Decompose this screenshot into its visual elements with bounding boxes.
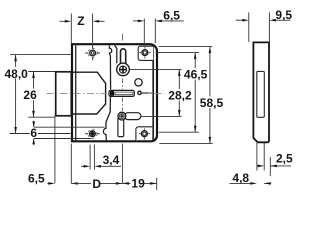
- dimension D: [71, 144, 122, 184]
- cylinder screw head in keyhole: [119, 66, 126, 73]
- key lever (T shape) arm: [125, 113, 141, 120]
- dimension 6 (left bottom): [34, 121, 105, 145]
- dimension 26: [28, 72, 55, 118]
- horizontal center line: [47, 92, 165, 94]
- bolt slot with slider: [109, 90, 134, 96]
- svg-text:Z: Z: [77, 14, 84, 28]
- dimension Z: [60, 14, 105, 48]
- svg-text:48,0: 48,0: [5, 67, 29, 81]
- svg-text:3,4: 3,4: [103, 153, 120, 167]
- keyhole circle: [117, 63, 130, 76]
- dimension 58,5: [159, 47, 213, 144]
- pivot pin: [138, 91, 152, 94]
- internal edge near keyhole: [115, 45, 117, 63]
- bolt seen in side view (inner slot): [257, 71, 265, 117]
- dimension 6,5 (bottom left): [47, 116, 71, 184]
- svg-text:46,5: 46,5: [184, 68, 208, 82]
- dimension 3,4: [81, 145, 121, 170]
- svg-text:4,8: 4,8: [232, 171, 249, 185]
- bolt extension lines below right view: [257, 143, 270, 176]
- bottom-right screw hole: [139, 128, 150, 139]
- svg-text:2,5: 2,5: [276, 151, 293, 165]
- svg-text:28,2: 28,2: [168, 88, 192, 102]
- dimension 4,8: [230, 182, 272, 184]
- bottom-left screw hole: [85, 129, 100, 138]
- plate right inner bend line: [152, 46, 154, 140]
- svg-text:6,5: 6,5: [163, 8, 180, 22]
- svg-text:9,5: 9,5: [275, 8, 292, 22]
- svg-text:58,5: 58,5: [200, 96, 224, 110]
- lock housing side rectangle (left view): [56, 72, 72, 116]
- top-left screw hole: [85, 46, 100, 60]
- key lever hub with phillips screw: [118, 112, 126, 120]
- internal mechanism wavy edge: [103, 46, 111, 141]
- dimension 46,5: [156, 52, 200, 132]
- dimension 19: [122, 178, 156, 190]
- cylinder housing front contour (D shape): [72, 72, 105, 114]
- lock back plate front view outline: [72, 44, 157, 141]
- vertical center line of keyhole: [122, 34, 124, 111]
- dimension 2,5: [258, 165, 292, 167]
- strike plate side view (right): [253, 42, 269, 142]
- svg-text:D: D: [92, 177, 101, 191]
- svg-text:26: 26: [23, 88, 37, 102]
- dimension 9,5: [236, 12, 291, 42]
- keyhole slot (capsule): [121, 49, 126, 65]
- dimension 48,0: [10, 55, 72, 134]
- plate left inner bend line: [75, 45, 77, 140]
- top-right screw hole: [139, 47, 151, 58]
- dimension 28,2: [130, 69, 182, 116]
- svg-text:6,5: 6,5: [28, 171, 45, 185]
- svg-text:19: 19: [131, 177, 145, 191]
- top-right screw recess box: [138, 46, 153, 60]
- dimension 6,5 (top): [133, 19, 184, 46]
- svg-text:6: 6: [30, 126, 37, 140]
- bottom-right screw recess box: [136, 127, 154, 142]
- key lever stem: [118, 118, 124, 137]
- guide circle: [135, 79, 142, 86]
